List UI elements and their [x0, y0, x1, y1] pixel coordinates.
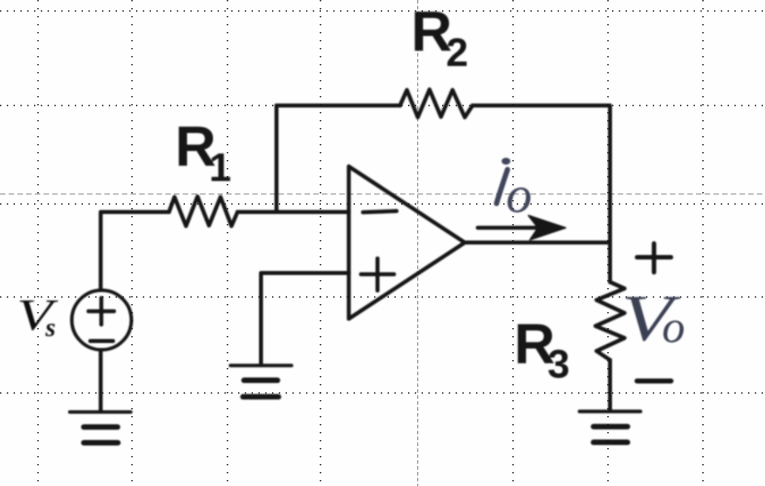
ground under R3	[580, 411, 641, 442]
resistor R1 zigzag	[169, 197, 238, 227]
wire: R3 to ground	[608, 360, 612, 411]
svg-text:o: o	[662, 301, 685, 352]
minus sign inside Vs	[90, 339, 113, 343]
minus input dash inside op-amp	[363, 211, 397, 212]
label R1	[175, 115, 231, 190]
wire: feedback vertical riser at node	[275, 106, 279, 213]
label Vo	[621, 282, 685, 355]
wire: Vs top to R1 level	[101, 212, 169, 290]
plus sign of Vo	[637, 244, 671, 273]
label Vs	[17, 291, 59, 342]
label R2	[411, 0, 468, 75]
grid dotted horizontal lines	[0, 11, 765, 393]
svg-text:2: 2	[446, 31, 468, 75]
voltage source Vs circle	[72, 290, 132, 350]
wire: Vs bottom to ground	[99, 351, 103, 411]
wire: R1 to op-amp inverting input	[238, 210, 349, 214]
grid dashed horizontal line	[0, 193, 765, 195]
ground under Vs	[70, 412, 131, 443]
wire: R2 to right corner and down to output node	[473, 106, 611, 243]
current arrow io shaft	[478, 226, 545, 230]
minus sign of Vo	[637, 379, 671, 384]
label io	[497, 158, 533, 224]
svg-text:o: o	[506, 167, 532, 224]
svg-text:1: 1	[209, 146, 231, 190]
wire: op-amp output to node	[465, 241, 610, 245]
plus sign inside op-amp	[361, 259, 394, 291]
svg-text:s: s	[45, 313, 56, 342]
wire: top feedback to R2	[277, 104, 401, 108]
resistor R2 zigzag	[400, 90, 473, 118]
label R3	[514, 313, 570, 387]
ground under non-inverting input	[231, 366, 292, 397]
plus sign inside Vs	[89, 298, 115, 325]
op-amp U1 triangle	[349, 166, 465, 318]
current arrow io head	[529, 216, 566, 240]
grid dashed vertical line	[417, 0, 419, 486]
wire: node down to R3	[608, 243, 612, 283]
resistor R3 zigzag	[596, 282, 625, 360]
svg-text:3: 3	[548, 343, 570, 387]
wire: non-inverting input to ground	[261, 273, 349, 364]
